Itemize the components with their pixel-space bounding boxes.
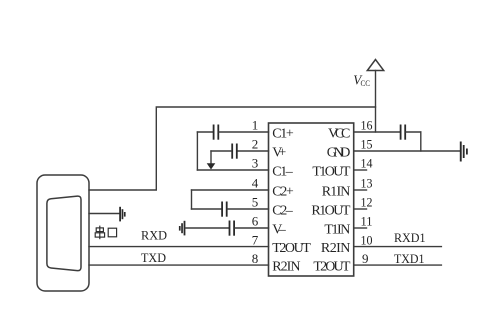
label 串口 (serial port), drawn glyphs [95, 226, 116, 240]
svg-text:VCC: VCC [328, 127, 350, 142]
wire pin2 right segment [238, 150, 269, 152]
wire RXD (DB9 to pin 7) [89, 246, 269, 248]
svg-text:TXD: TXD [141, 250, 166, 265]
wire cap drop to pin15 net [420, 132, 422, 151]
svg-text:T1IN: T1IN [324, 223, 350, 238]
wire pin4 [192, 189, 269, 191]
pin numbers left [252, 118, 259, 266]
svg-text:5: 5 [252, 195, 259, 210]
svg-text:13: 13 [361, 176, 373, 191]
svg-text:C1–: C1– [272, 165, 294, 180]
wire pin11 stub [354, 227, 367, 229]
svg-text:9: 9 [362, 251, 369, 266]
wire pin1 left segment [197, 131, 212, 133]
svg-text:C2+: C2+ [272, 185, 294, 200]
svg-text:R2IN: R2IN [272, 260, 300, 275]
svg-text:V–: V– [272, 223, 287, 238]
svg-text:10: 10 [361, 232, 373, 247]
svg-text:11: 11 [361, 214, 373, 229]
wire pin14 stub [354, 169, 367, 171]
wire pin15 to ground [354, 150, 460, 152]
svg-text:C2–: C2– [272, 204, 294, 219]
IC pin labels left [272, 127, 311, 275]
wire vertical pin1 to pin3 [196, 132, 198, 170]
wire pin1 right segment [219, 131, 268, 133]
svg-text:2: 2 [252, 137, 259, 152]
ground G1 (near serial port) [119, 207, 125, 222]
svg-text:T2OUT: T2OUT [272, 241, 311, 256]
capacitor C5 (Vcc bypass) [400, 125, 406, 140]
capacitor C2 (on pin 2) [231, 144, 237, 159]
svg-text:7: 7 [252, 232, 259, 247]
wire Vcc stem [375, 71, 377, 133]
wire pin10 RXD1 [354, 246, 442, 248]
ground G2 (V- cap, pointing left) [179, 221, 186, 236]
wire pin16 left segment [354, 131, 400, 133]
svg-text:1: 1 [252, 118, 259, 133]
svg-text:12: 12 [361, 195, 373, 210]
wire pin6 right segment [235, 227, 269, 229]
ground arrow (V+ cap return) [207, 163, 216, 169]
IC U1 (MAX232) body [269, 123, 354, 276]
svg-text:R1OUT: R1OUT [311, 204, 350, 219]
wire pin2 drop to arrow [210, 151, 212, 164]
svg-text:R1IN: R1IN [322, 185, 351, 200]
svg-text:T1OUT: T1OUT [312, 165, 350, 180]
ground G3 (GND net) [460, 142, 468, 162]
capacitor C4 (on pin 6) [229, 221, 235, 236]
wire TXD (DB9 to pin 8) [89, 264, 269, 266]
Vcc symbol [367, 60, 383, 71]
svg-text:4: 4 [252, 176, 259, 191]
wire pin2 left segment [211, 150, 231, 152]
IC pin labels right [311, 127, 350, 275]
pin numbers right [361, 118, 373, 266]
svg-text:RXD: RXD [141, 228, 167, 243]
svg-text:15: 15 [361, 137, 373, 152]
svg-text:14: 14 [361, 156, 373, 171]
svg-text:C1+: C1+ [272, 127, 294, 142]
wire pin13 stub [354, 189, 367, 191]
wire pin9 TXD1 [354, 264, 442, 266]
svg-text:3: 3 [252, 156, 259, 171]
svg-text:16: 16 [361, 118, 373, 133]
svg-text:RXD1: RXD1 [394, 230, 426, 245]
svg-text:6: 6 [252, 214, 259, 229]
wire pin6 left segment [185, 227, 228, 229]
capacitor C3 (on pin 5) [221, 202, 227, 217]
wire pin12 stub [354, 208, 367, 210]
wire pin5 left segment [192, 208, 222, 210]
capacitor C1 (on pin 1) [213, 125, 220, 140]
wire pin5 right segment [228, 208, 269, 210]
wire pin3 [197, 169, 268, 171]
svg-text:V+: V+ [272, 146, 286, 161]
wire vertical pin4 to pin5 [191, 190, 193, 209]
svg-text:T2OUT: T2OUT [313, 260, 350, 275]
svg-text:GND: GND [327, 146, 351, 161]
svg-text:TXD1: TXD1 [394, 251, 425, 266]
serial connector J1 outer body [37, 175, 89, 291]
svg-text:8: 8 [252, 251, 259, 266]
svg-text:CC: CC [361, 78, 371, 88]
svg-text:R2IN: R2IN [321, 241, 351, 256]
wire pin16 right segment [406, 131, 421, 133]
wire DB9 top to corner [89, 107, 376, 190]
wire DB9 ground stub [89, 213, 119, 215]
serial connector J1 inner D-sub face [47, 196, 81, 271]
